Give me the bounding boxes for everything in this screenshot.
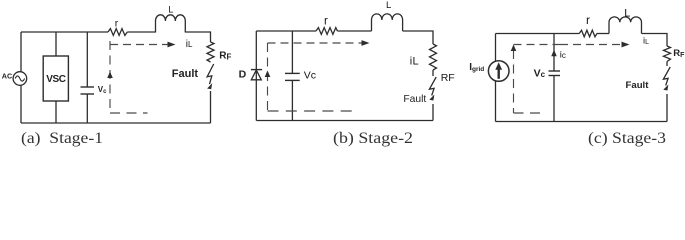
resistor r (stage2) bbox=[316, 28, 337, 35]
current source arrow bbox=[498, 67, 500, 79]
svg-text:AC: AC bbox=[2, 71, 12, 80]
dashed loop bottom (stage3) bbox=[514, 112, 546, 114]
loop current arrowhead right (stage1) bbox=[168, 42, 176, 48]
wire: stage1 top rail between r and L bbox=[127, 31, 155, 33]
wire: stage3 right rail stub above fault bbox=[666, 62, 668, 67]
dashed loop top arrow shaft (stage2) bbox=[268, 42, 364, 44]
loop current arrowhead up (stage2) bbox=[265, 71, 271, 78]
wire: VSC branch top bbox=[55, 32, 57, 56]
wire: capacitor branch bottom (stage1) bbox=[86, 94, 88, 123]
capacitor Vc plates (stage2) bbox=[285, 72, 300, 74]
wire: stage2 top rail between r and L bbox=[337, 30, 371, 32]
wire: stage1 top rail bbox=[21, 31, 108, 33]
wire: stage3 top rail between r and L bbox=[597, 33, 609, 35]
wire: stage1 right rail below fault bbox=[210, 91, 212, 123]
wire: stage2 right rail stub above fault bbox=[432, 70, 434, 76]
svg-text:VSC: VSC bbox=[46, 74, 66, 85]
svg-text:ic: ic bbox=[560, 50, 566, 61]
loop current arrowhead up (stage1) bbox=[107, 72, 113, 79]
svg-text:iL: iL bbox=[643, 36, 649, 47]
wire: stage3 top rail bbox=[496, 33, 580, 35]
wire: stage2 top rail from L to right corner bbox=[403, 31, 433, 44]
dashed loop left vertical (stage2) bbox=[267, 43, 269, 111]
wire: stage1 left rail upper bbox=[20, 32, 22, 72]
AC sine symbol bbox=[15, 76, 24, 81]
svg-text:L: L bbox=[386, 0, 391, 11]
wire: capacitor branch top (stage1) bbox=[86, 32, 88, 87]
current source arrowhead (Igrid) bbox=[495, 62, 502, 70]
capacitor current arrowhead ic (stage3) bbox=[551, 50, 557, 57]
wire: stage3 left rail lower bbox=[495, 81, 497, 122]
VSC converter box bbox=[43, 56, 68, 101]
svg-text:r: r bbox=[586, 13, 590, 27]
svg-text:r: r bbox=[115, 18, 119, 30]
svg-text:RF: RF bbox=[441, 72, 455, 84]
svg-text:(c) Stage-3: (c) Stage-3 bbox=[588, 130, 666, 147]
wire: stage3 left rail upper bbox=[495, 34, 497, 62]
wire: stage3 right rail below fault bbox=[666, 94, 668, 122]
AC source circle (stage1) bbox=[13, 72, 27, 86]
fault lightning arrow (stage1) bbox=[207, 64, 214, 84]
inductor L (stage3) bbox=[609, 17, 641, 34]
svg-text:iL: iL bbox=[186, 39, 193, 50]
dashed loop bottom (stage1) bbox=[110, 112, 148, 114]
dashed loop left vertical (stage3) bbox=[513, 50, 515, 113]
wire: stage2 bottom rail bbox=[256, 120, 433, 122]
svg-text:Vc: Vc bbox=[98, 85, 107, 95]
wire: capacitor branch bottom (stage2) bbox=[291, 80, 293, 120]
wire: VSC branch bottom bbox=[55, 101, 57, 123]
svg-text:RF: RF bbox=[673, 48, 685, 59]
svg-text:(b) Stage-2: (b) Stage-2 bbox=[333, 130, 413, 147]
inductor L (stage2) bbox=[371, 14, 402, 31]
svg-text:Igrid: Igrid bbox=[469, 62, 484, 73]
fault lightning arrow (stage2) bbox=[429, 77, 436, 96]
wire: stage3 top rail from L to right corner bbox=[642, 34, 668, 47]
wire: capacitor branch top (stage2) bbox=[291, 31, 293, 73]
svg-text:D: D bbox=[239, 68, 247, 80]
wire: stage2 left rail (through diode) bbox=[255, 31, 257, 121]
dashed loop bottom (stage2) bbox=[268, 110, 353, 112]
wire: stage2 top rail bbox=[256, 30, 316, 32]
svg-text:Vc: Vc bbox=[304, 70, 316, 82]
diode D cathode bar bbox=[251, 69, 262, 71]
svg-text:iL: iL bbox=[410, 56, 419, 68]
svg-text:RF: RF bbox=[219, 51, 231, 62]
capacitor Vc plates (stage3) bbox=[549, 70, 561, 72]
loop current arrowhead right (stage3, iL direction) bbox=[622, 42, 630, 48]
wire: capacitor branch bottom (stage3) bbox=[553, 76, 555, 122]
fault lightning arrow (stage3) bbox=[663, 67, 670, 86]
svg-text:Fault: Fault bbox=[626, 80, 650, 91]
capacitor Vc plates (stage1) bbox=[81, 86, 95, 88]
svg-text:Vc: Vc bbox=[534, 67, 546, 79]
svg-text:Fault: Fault bbox=[403, 94, 426, 105]
wire: stage1 bottom rail bbox=[21, 122, 211, 124]
current source Igrid circle bbox=[488, 61, 509, 82]
svg-text:L: L bbox=[168, 5, 173, 15]
loop current arrowhead right (stage2) bbox=[362, 40, 370, 46]
resistor RF (stage1) bbox=[207, 42, 214, 62]
svg-text:L: L bbox=[624, 7, 630, 19]
resistor RF (stage3) bbox=[664, 46, 671, 62]
diode D triangle bbox=[251, 70, 261, 80]
svg-text:(a) Stage-1: (a) Stage-1 bbox=[21, 130, 103, 147]
resistor RF (stage2) bbox=[430, 44, 437, 70]
dashed loop top arrow shaft (stage3) bbox=[514, 44, 624, 46]
loop current arrowhead up (stage3) bbox=[511, 45, 517, 52]
wire: stage1 left rail lower bbox=[20, 85, 22, 123]
resistor r (stage3) bbox=[579, 30, 597, 37]
wire: capacitor branch top (stage3) bbox=[553, 34, 555, 72]
svg-text:r: r bbox=[324, 16, 328, 28]
resistor r (stage1) bbox=[108, 29, 127, 36]
wire: stage1 top rail from L to right corner bbox=[185, 32, 210, 42]
inductor L (stage1) bbox=[155, 15, 185, 33]
svg-text:Fault: Fault bbox=[172, 68, 199, 80]
dashed loop top arrow shaft (stage1) bbox=[110, 44, 169, 46]
dashed loop left vertical (stage1) bbox=[109, 41, 111, 113]
wire: stage2 right rail below fault bbox=[432, 104, 434, 121]
wire: stage3 bottom rail bbox=[496, 121, 668, 123]
